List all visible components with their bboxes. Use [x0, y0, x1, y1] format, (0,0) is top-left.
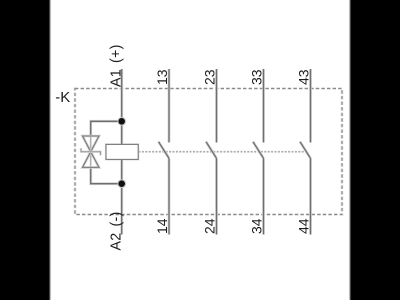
svg-text:43: 43 [295, 69, 311, 85]
svg-text:13: 13 [154, 69, 170, 85]
svg-text:A2 (-): A2 (-) [109, 212, 125, 251]
svg-text:34: 34 [248, 218, 264, 234]
svg-text:14: 14 [154, 218, 170, 234]
svg-text:23: 23 [201, 69, 217, 85]
svg-text:A1 (+): A1 (+) [109, 44, 125, 87]
svg-text:44: 44 [295, 218, 311, 234]
svg-text:33: 33 [248, 69, 264, 85]
svg-text:-K: -K [55, 89, 70, 106]
svg-text:24: 24 [201, 218, 217, 234]
